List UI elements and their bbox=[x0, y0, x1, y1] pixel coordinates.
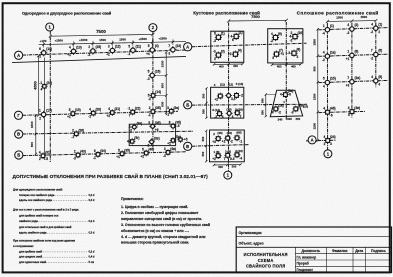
pile (4в) on axis Б bbox=[163, 147, 176, 158]
pile (8) (right plan grid) bbox=[371, 75, 382, 87]
pile (2) in cluster 1 bbox=[231, 31, 243, 42]
dimension line Г-В-Б bbox=[35, 116, 37, 155]
axis bubble A (left plan) bbox=[15, 51, 23, 59]
pile (26) on axis В bbox=[71, 128, 84, 139]
grid line 1 (middle plan) bbox=[228, 23, 230, 171]
dimension chain under cluster 1 bbox=[214, 63, 243, 65]
dimension chain under cluster 2 bbox=[272, 63, 301, 65]
pile (1в) (right plan grid) bbox=[346, 76, 361, 88]
axis bubble Б (middle plan) bbox=[184, 101, 192, 109]
pile (4в) row 4 (right plan) bbox=[348, 106, 360, 117]
pile cap outline (cluster 4) bbox=[210, 130, 245, 162]
pile (1б) (right plan grid) bbox=[323, 77, 336, 89]
pile (31) on axis Б bbox=[39, 150, 51, 161]
axis Б line (middle plan) bbox=[192, 103, 307, 106]
pile (9) in cluster 4 bbox=[224, 152, 235, 161]
dimension line 7500 (middle plan) bbox=[229, 19, 287, 22]
pile (1а) (right plan grid) bbox=[322, 50, 336, 62]
pile (8) in cluster 4 bbox=[212, 152, 221, 161]
pile (14) on axis A bbox=[38, 47, 52, 59]
pile (24) on axis A (right plan) bbox=[323, 135, 335, 146]
pile (3а) in В group bbox=[129, 122, 142, 133]
axis В line (left plan) bbox=[23, 131, 193, 134]
pile (3а) on axis Г bbox=[166, 106, 180, 117]
pile (20) on axis Г bbox=[88, 108, 101, 119]
pile (24) on grid line 1 bbox=[39, 81, 52, 92]
pile cap outline (cluster 2) bbox=[268, 29, 303, 63]
pile (13) on axis A bbox=[168, 44, 182, 56]
axis bubble Г (left plan) bbox=[14, 111, 22, 119]
grid row line 3 (right plan) bbox=[319, 80, 389, 82]
pile (4) on axis A bbox=[146, 44, 159, 56]
dimension line left of trapezoid bbox=[265, 94, 267, 116]
pile (13) in cluster 3 bbox=[233, 92, 243, 99]
pile (11) on axis A bbox=[128, 44, 141, 56]
axis bubble Б (left plan) bbox=[15, 151, 23, 159]
grid column line c (right plan) bbox=[375, 22, 377, 87]
pile 5 (16) on grid line 2 bbox=[147, 70, 161, 82]
grid line 2 (middle plan) bbox=[285, 22, 287, 121]
grid column line b (right plan) bbox=[351, 23, 353, 118]
pile (1) (right plan grid) bbox=[322, 24, 334, 36]
dimension line 7500 (left plan) bbox=[50, 34, 153, 36]
pile (7) in cluster 2 bbox=[272, 48, 284, 59]
dimension line on grid 2 column bbox=[165, 52, 167, 113]
pile cap outline (trapezoid cluster) bbox=[270, 90, 302, 116]
grid row line 4 (right plan) bbox=[319, 111, 366, 112]
grid line 2 (left plan) bbox=[152, 32, 154, 150]
pile (15) on axis A bbox=[88, 45, 102, 57]
pile cap outline (axis В group) bbox=[129, 124, 175, 145]
axis A line (right plan) bbox=[306, 139, 336, 142]
pile (6б) in cluster 4 bbox=[234, 134, 243, 143]
pile (5а) in trapezoid bbox=[280, 89, 293, 98]
pile (5в) in trapezoid bbox=[291, 103, 304, 114]
pile (4б) on axis Б bbox=[140, 148, 154, 159]
pile (17) on axis Г bbox=[38, 109, 52, 121]
axis bubble В (left plan) bbox=[15, 130, 23, 138]
pile (5б) in trapezoid bbox=[272, 103, 284, 114]
pile cap outline (cluster 3) bbox=[211, 87, 244, 118]
pile (12) in cluster 3 bbox=[225, 92, 236, 101]
axis bubble A (right plan) bbox=[308, 136, 316, 144]
dimension line (right plan left) bbox=[317, 29, 319, 141]
pile (4б) in cluster 4 bbox=[212, 135, 221, 144]
pile (21) on axis Г bbox=[107, 107, 121, 118]
pile (3б) in В group bbox=[148, 121, 160, 132]
grid row line 2 (right plan) bbox=[319, 54, 389, 56]
pile (19) on axis Г bbox=[67, 108, 81, 119]
pile (10) in cluster 2 bbox=[289, 31, 303, 42]
dimension line left of cluster 3 bbox=[206, 88, 208, 118]
grid line 1 (left plan) bbox=[49, 31, 51, 162]
axis bubble A (middle plan) bbox=[184, 43, 192, 51]
grid column line a (right plan) bbox=[326, 23, 328, 150]
pile (13) on axis A bbox=[67, 46, 81, 58]
grid bubble 1 (left plan) bbox=[46, 23, 54, 31]
pile (35) on axis Б bbox=[116, 148, 130, 159]
pile alignment line at grid 1 bbox=[43, 58, 45, 161]
pile cap outline (cluster 1) bbox=[211, 31, 244, 62]
title block grid bbox=[236, 227, 391, 273]
pile (34) on axis Б bbox=[93, 149, 106, 160]
dimension line left of cluster 4 bbox=[205, 131, 207, 162]
pile (9) in cluster 2 bbox=[270, 32, 282, 43]
pile (6) (right plan grid) bbox=[370, 49, 382, 61]
pile (12) on axis A bbox=[106, 45, 120, 57]
pile (3) in cluster 1 bbox=[213, 49, 225, 60]
pile (8) in cluster 2 bbox=[287, 48, 300, 59]
pile (8) (right plan grid) bbox=[346, 50, 359, 62]
dimension chain under cluster 4 bbox=[214, 164, 241, 166]
pile 5 (14) on grid line 2 bbox=[148, 90, 161, 101]
pile (16) in cluster 3 bbox=[234, 109, 242, 118]
pile (5б) in cluster 4 bbox=[222, 135, 233, 144]
pile (10) in cluster 4 bbox=[234, 151, 243, 160]
dimension line 4500 (axis A to Г) bbox=[38, 55, 40, 115]
axis A line (middle plan) bbox=[192, 43, 307, 47]
pile (5д) in В group bbox=[167, 135, 181, 146]
pile (11) in cluster 3 bbox=[214, 93, 223, 102]
pile (3в) in В group bbox=[169, 121, 181, 130]
pile (3б) on axis Г bbox=[148, 106, 161, 117]
pile (2) (right plan grid) bbox=[347, 23, 359, 35]
pile (4) in cluster 1 bbox=[228, 49, 242, 58]
pile (15) in cluster 3 bbox=[226, 110, 234, 119]
axis В line (middle plan) bbox=[192, 145, 249, 147]
grid row line 1 (right plan) bbox=[319, 28, 389, 30]
axis bubble В (middle plan) bbox=[184, 142, 192, 150]
pile (14) in cluster 3 bbox=[214, 110, 223, 119]
pile (5е) right of В group bbox=[177, 137, 187, 143]
pile (1) (right plan grid) bbox=[370, 22, 382, 34]
pile (5г) in В group bbox=[127, 136, 140, 145]
grid bubble 1 (middle plan bottom) bbox=[224, 171, 232, 179]
foundation strip edge under axis A bbox=[12, 56, 186, 62]
axis Б line (left plan) bbox=[23, 152, 186, 156]
pile (1г) row 4 (right plan) bbox=[323, 107, 335, 118]
grid bubble 1 (right plan) bbox=[324, 150, 332, 158]
as-built dimension chain (axis A row) bbox=[39, 42, 186, 45]
pile (43) on axis Б bbox=[73, 150, 86, 161]
axis Г line (left plan) bbox=[23, 111, 178, 115]
pile (3г) in В group bbox=[147, 136, 160, 147]
pile (22) on axis Г bbox=[128, 107, 141, 118]
axis A line (left plan) bbox=[23, 50, 186, 55]
dimension line (right plan top) bbox=[327, 20, 375, 23]
pile (1) in cluster 1 bbox=[213, 32, 225, 43]
grid bubble 2 (left plan) bbox=[149, 24, 157, 32]
